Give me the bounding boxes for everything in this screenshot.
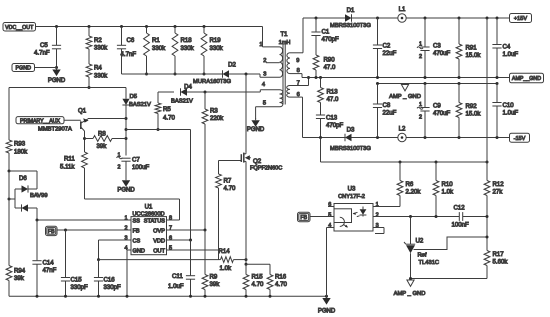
wire pin9 to D1 [303, 17, 345, 19]
svg-text:D6: D6 [19, 175, 27, 182]
net label VDC__OUT [3, 23, 36, 32]
svg-text:C3: C3 [433, 43, 441, 50]
label D5 BAS21V [129, 94, 151, 108]
net label FB (left) [46, 226, 58, 235]
resistor R93 [6, 88, 12, 172]
capacitor C13 [316, 115, 325, 138]
wire GND drop [127, 250, 131, 296]
svg-text:47.0: 47.0 [324, 64, 336, 71]
svg-text:R16: R16 [275, 274, 287, 281]
label R2 330k [94, 37, 108, 52]
inductor L2 [398, 126, 406, 142]
net label +15V [510, 14, 532, 23]
svg-text:3: 3 [124, 235, 127, 241]
svg-text:U1: U1 [145, 203, 153, 210]
capacitor C10 [492, 84, 501, 138]
resistor R94 [6, 266, 12, 297]
svg-text:22uF: 22uF [383, 110, 397, 117]
svg-text:4.7nF: 4.7nF [34, 50, 50, 57]
label R11 5.11k [60, 156, 75, 171]
wire FB to pin 5 [310, 216, 334, 218]
svg-text:D1: D1 [347, 7, 355, 14]
label C9 470uF [417, 102, 451, 121]
svg-text:C12: C12 [454, 205, 466, 212]
label D2 MURA160T3G [193, 79, 232, 85]
svg-text:22uF: 22uF [383, 50, 397, 57]
svg-text:6: 6 [297, 92, 300, 98]
wire -15V rail [406, 137, 509, 139]
pin 6 wire [290, 92, 303, 138]
capacitor C14 [32, 220, 41, 296]
svg-text:PGND: PGND [318, 309, 336, 315]
svg-text:8: 8 [297, 68, 300, 74]
svg-text:330pF: 330pF [104, 284, 122, 291]
svg-text:PGND: PGND [48, 78, 66, 84]
svg-text:5: 5 [263, 101, 266, 107]
svg-text:330k: 330k [181, 45, 195, 52]
label R5 4.70 [163, 106, 175, 122]
resistor R18 [172, 27, 178, 76]
net label AMP__GND [510, 73, 544, 83]
transistor Q1 [64, 108, 89, 132]
wire sense branch [246, 263, 270, 265]
svg-text:2: 2 [118, 164, 121, 170]
svg-text:Q2: Q2 [253, 158, 262, 165]
resistor R7 [216, 161, 222, 251]
svg-text:39k: 39k [97, 143, 108, 150]
svg-text:R8: R8 [98, 130, 106, 137]
svg-text:4.7nF: 4.7nF [121, 51, 137, 58]
wire TL431 anode line [409, 277, 487, 280]
svg-text:R3: R3 [210, 108, 218, 115]
resistor R91 [456, 18, 462, 78]
transistor Q2 FQPF2N60C [241, 153, 282, 172]
wire OVP line [167, 229, 207, 232]
svg-text:Ref: Ref [418, 253, 427, 259]
resistor R90 [313, 55, 319, 78]
svg-text:1.0uF: 1.0uF [503, 110, 519, 117]
wire drain [245, 74, 247, 153]
pin 4 wire [260, 82, 279, 92]
wire Q1 collector [83, 131, 86, 152]
op-amp U1 UCC28600D controller [124, 203, 172, 254]
svg-text:MMBT2907A: MMBT2907A [38, 126, 72, 132]
svg-text:470pF: 470pF [326, 122, 344, 129]
label R13 47.0 [327, 89, 339, 104]
wire pin 6 stub [328, 206, 334, 208]
svg-text:4: 4 [262, 82, 265, 88]
label R92 15.0k [466, 103, 482, 118]
junctions on feedback line [399, 161, 489, 164]
wire clamp line [122, 73, 223, 75]
diode D2 [223, 61, 237, 78]
wire R11 to STATUS [85, 199, 180, 220]
svg-text:39k: 39k [14, 275, 25, 282]
svg-text:C9: C9 [433, 103, 441, 110]
label R9 39k [210, 274, 221, 289]
label C3 470uF [417, 42, 451, 61]
svg-text:4.70: 4.70 [163, 115, 175, 122]
resistor R16 [267, 264, 273, 296]
svg-text:1: 1 [259, 42, 262, 48]
net label FB (right) [298, 212, 311, 221]
svg-text:C11: C11 [172, 273, 183, 280]
svg-text:VDD: VDD [153, 239, 165, 245]
svg-text:470uF: 470uF [433, 50, 451, 57]
resistor R15 [243, 264, 249, 296]
svg-text:R10: R10 [442, 181, 454, 188]
svg-text:STATUS: STATUS [144, 219, 166, 225]
label C8 22uF [383, 102, 397, 117]
junctions on AMP_GND rail [315, 76, 499, 79]
resistor R5 [155, 92, 161, 131]
label R12 27k [493, 181, 505, 196]
pin 1 wire [259, 27, 279, 49]
svg-text:C7: C7 [132, 157, 140, 164]
svg-text:C5: C5 [40, 42, 48, 49]
svg-text:330pF: 330pF [71, 284, 89, 291]
wire OUT corner [218, 250, 220, 260]
resistor R6 [397, 162, 403, 207]
svg-text:SS: SS [133, 219, 141, 225]
wire FB line [57, 229, 131, 232]
label R15 4.70 [252, 274, 264, 289]
junctions on VDC rail [55, 25, 206, 28]
pin 3 number [263, 71, 266, 77]
label R6 2.20k [406, 181, 422, 196]
wire pin6 to D3 [303, 137, 346, 139]
wire AMP_GND rail lower [376, 82, 499, 85]
svg-text:100uF: 100uF [132, 164, 150, 171]
label R18 330k [181, 37, 195, 52]
svg-text:U3: U3 [348, 186, 356, 193]
svg-text:R6: R6 [406, 181, 414, 188]
svg-text:CNY17F-2: CNY17F-2 [338, 194, 365, 200]
wire CS line [99, 240, 132, 260]
label R94 39k [14, 268, 26, 283]
label D4 BAS21V [171, 83, 193, 104]
svg-text:1mH: 1mH [279, 40, 291, 46]
svg-text:AMP _ GND: AMP _ GND [389, 94, 421, 100]
svg-text:4.70: 4.70 [275, 281, 287, 288]
ground AMP_GND symbol [389, 85, 421, 101]
pin 2 stub [263, 58, 279, 64]
svg-text:39k: 39k [210, 281, 221, 288]
svg-text:220k: 220k [210, 115, 224, 122]
svg-text:1.0k: 1.0k [220, 265, 232, 272]
svg-text:C8: C8 [383, 102, 391, 109]
svg-text:330k: 330k [94, 45, 108, 52]
wire primary ground rail [9, 295, 327, 297]
diode D1 [345, 7, 355, 22]
svg-text:R13: R13 [327, 89, 339, 96]
svg-text:R9: R9 [210, 274, 218, 281]
net label PGND [12, 64, 35, 72]
wire D2 to pin3 / drain node [229, 73, 260, 76]
svg-text:5.11k: 5.11k [60, 164, 75, 171]
label C5 4.7nF [34, 42, 50, 57]
svg-text:C4: C4 [503, 44, 511, 51]
label R19 330k [210, 37, 224, 52]
resistor R9 [202, 230, 208, 296]
svg-text:MBRS3100T3G: MBRS3100T3G [330, 23, 371, 29]
svg-text:1.0k: 1.0k [442, 189, 454, 196]
junctions on +15V rail [315, 17, 499, 20]
svg-text:PGND: PGND [117, 188, 135, 194]
svg-text:AMP _ GND: AMP _ GND [394, 291, 426, 297]
label C16 330pF [104, 277, 122, 291]
resistor R13 [318, 78, 324, 115]
svg-text:FB: FB [48, 229, 55, 235]
label R4 330k [94, 65, 108, 80]
capacitor C15 [61, 230, 70, 296]
svg-text:R7: R7 [224, 178, 232, 185]
svg-text:4: 4 [124, 245, 127, 251]
svg-text:UCC28600D: UCC28600D [132, 211, 164, 217]
label Q1 MMBT2907A [38, 126, 72, 132]
svg-text:R2: R2 [94, 37, 102, 44]
ground AMP_GND at TL431 [394, 280, 426, 297]
pin 9 wire [290, 18, 303, 64]
svg-text:2: 2 [263, 58, 266, 64]
svg-text:470pF: 470pF [322, 36, 340, 43]
wire pin 3 stub [260, 74, 280, 77]
svg-text:VDC__OUT: VDC__OUT [5, 25, 34, 31]
resistor R8 [85, 136, 127, 142]
resistor R3 [202, 92, 208, 230]
wire D5 to C7 [125, 105, 128, 156]
ground PGND at pin 5 [247, 107, 265, 133]
wire aux top line [9, 87, 126, 89]
wire pin 3 hook [373, 228, 384, 234]
svg-text:BAS21V: BAS21V [171, 99, 193, 105]
pin 5 wire [256, 101, 280, 107]
svg-text:4.70: 4.70 [252, 281, 264, 288]
label R90 47.0 [324, 57, 336, 72]
svg-text:L1: L1 [399, 6, 406, 13]
svg-text:L2: L2 [399, 126, 406, 133]
label C12 100nF [452, 205, 470, 229]
svg-text:MURA160T3G: MURA160T3G [193, 79, 232, 85]
label C6 4.7nF [121, 37, 137, 58]
svg-text:C15: C15 [71, 277, 83, 284]
inductor L1 [398, 6, 406, 22]
svg-text:R17: R17 [493, 251, 505, 258]
svg-text:Q1: Q1 [78, 108, 87, 115]
svg-text:C14: C14 [43, 260, 55, 267]
svg-text:R4: R4 [94, 65, 102, 72]
svg-text:R93: R93 [14, 141, 26, 148]
label R93 180k [14, 141, 28, 156]
svg-text:TL431C: TL431C [419, 260, 440, 266]
svg-text:D5: D5 [130, 94, 138, 100]
svg-text:1: 1 [124, 215, 127, 221]
wire gate [219, 160, 242, 162]
svg-text:R12: R12 [493, 181, 505, 188]
svg-text:PRIMARY__AUX: PRIMARY__AUX [20, 118, 61, 124]
svg-text:R91: R91 [466, 45, 478, 52]
svg-text:BAV99: BAV99 [30, 193, 48, 199]
resistor R14 [219, 257, 248, 263]
label R91 15.0k [466, 45, 482, 60]
capacitor C6 [117, 27, 126, 75]
svg-text:2: 2 [376, 212, 379, 218]
svg-text:5.60k: 5.60k [493, 259, 509, 266]
capacitor C8 [373, 84, 382, 138]
wire TL431 ref to divider [414, 236, 489, 250]
net label PRIMARY__AUX [16, 117, 64, 125]
wire STATUS stub [167, 219, 180, 221]
svg-text:R1: R1 [152, 37, 160, 44]
svg-text:C16: C16 [104, 277, 116, 284]
svg-text:D2: D2 [228, 61, 236, 68]
diode D6 BAV99 [9, 171, 48, 220]
label R7 4.70 [224, 178, 236, 193]
svg-text:R15: R15 [252, 274, 264, 281]
svg-text:180k: 180k [14, 149, 28, 156]
label D3 MBRS3100T3G [330, 146, 371, 152]
svg-text:C6: C6 [127, 37, 135, 44]
label R1 330k [152, 37, 166, 52]
diode D4 [181, 88, 188, 96]
svg-text:330k: 330k [94, 73, 108, 80]
resistor R19 [201, 27, 207, 76]
svg-text:100nF: 100nF [452, 222, 470, 229]
svg-text:+15V: +15V [514, 16, 527, 22]
label R3 220k [210, 108, 224, 122]
label R16 4.70 [275, 274, 287, 289]
wire +15V sense drop [486, 18, 488, 162]
svg-text:FQPF2N60C: FQPF2N60C [250, 165, 282, 171]
capacitor C2 [373, 18, 382, 78]
wire feedback top line [321, 138, 488, 163]
svg-text:4.70: 4.70 [224, 185, 236, 192]
svg-text:-15V: -15V [514, 136, 526, 142]
wire D1 to L1 [352, 17, 398, 19]
svg-text:2: 2 [124, 225, 127, 231]
capacitor C11 [186, 240, 195, 296]
capacitor C16 [94, 258, 103, 296]
wire PGND to C5 [35, 67, 57, 69]
label C7 100uF [117, 153, 150, 171]
diode D5 [122, 88, 129, 106]
capacitor C4 [492, 18, 501, 78]
svg-text:27k: 27k [493, 189, 504, 196]
svg-text:C13: C13 [326, 115, 338, 122]
svg-text:CS: CS [133, 239, 141, 245]
svg-text:U2: U2 [416, 238, 424, 245]
svg-text:R92: R92 [466, 103, 478, 110]
optocoupler U3 CNY17F-2 [334, 186, 373, 232]
label C13 470pF [326, 115, 344, 130]
svg-text:5: 5 [328, 212, 331, 218]
label C1 470pF [322, 29, 340, 44]
svg-text:1.0uF: 1.0uF [168, 283, 184, 290]
diode D3 [345, 127, 355, 142]
capacitor C3 [420, 18, 429, 78]
svg-text:MBRS3100T3G: MBRS3100T3G [330, 146, 371, 152]
svg-text:R18: R18 [181, 37, 193, 44]
svg-text:OUT: OUT [153, 249, 165, 255]
svg-text:C10: C10 [503, 102, 515, 109]
resistor R11 [82, 152, 88, 199]
svg-text:PGND: PGND [247, 127, 265, 133]
resistor R12 [484, 162, 490, 251]
svg-text:3: 3 [263, 71, 266, 77]
svg-text:R19: R19 [210, 37, 222, 44]
wire CS sense line [99, 259, 219, 261]
label C15 330pF [71, 277, 89, 291]
label R14 1.0k [219, 248, 232, 272]
svg-text:9: 9 [296, 58, 299, 64]
net label -15V [510, 133, 530, 142]
resistor R1 [144, 27, 150, 76]
label R10 1.0k [442, 181, 454, 196]
svg-text:2: 2 [419, 115, 422, 121]
svg-text:PGND: PGND [15, 66, 31, 72]
svg-text:BAS21V: BAS21V [129, 102, 151, 108]
label D1 MBRS3100T3G [330, 23, 371, 29]
label C10 1.0uF [503, 102, 519, 117]
svg-text:T1: T1 [280, 31, 288, 38]
svg-text:D3: D3 [347, 127, 355, 134]
wire Q1 emitter to D5 node [88, 118, 126, 120]
svg-text:7: 7 [297, 81, 300, 87]
label R8 39k [97, 130, 108, 150]
svg-text:C1: C1 [322, 29, 330, 36]
resistor R17 [484, 251, 490, 279]
wire AMP_GND rail upper [302, 77, 510, 79]
pin numbers 6 5 4 [328, 202, 331, 229]
label C11 1.0uF [168, 273, 184, 290]
svg-text:15.0k: 15.0k [466, 111, 482, 118]
wire OUT line [167, 249, 219, 251]
pin numbers 1 2 3 [376, 202, 379, 229]
resistor R2 [86, 27, 92, 65]
svg-text:OVP: OVP [153, 229, 165, 235]
svg-text:2.20k: 2.20k [406, 189, 422, 196]
ground PGND at C7 [117, 178, 135, 193]
capacitor C1 [311, 18, 320, 55]
pin 8 wire [290, 68, 302, 77]
svg-text:R90: R90 [324, 57, 336, 64]
shunt regulator U2 TL431C [404, 217, 439, 279]
svg-text:1.0uF: 1.0uF [503, 51, 519, 58]
wire VDD feed [126, 130, 191, 241]
svg-text:D4: D4 [184, 83, 192, 90]
resistor R92 [456, 84, 462, 138]
label C2 22uF [383, 43, 397, 58]
ground PGND symbol [48, 68, 66, 85]
wire pin 4 to ground [327, 228, 335, 297]
svg-text:R94: R94 [14, 268, 26, 275]
transformer T1 [279, 31, 291, 107]
capacitor C9 [420, 84, 429, 138]
capacitor C12 [459, 212, 488, 221]
label R17 5.60k [493, 251, 509, 266]
svg-text:FB: FB [300, 215, 307, 221]
wire VDC rail [36, 26, 263, 28]
svg-text:FB: FB [133, 229, 140, 235]
label C4 1.0uF [503, 44, 519, 59]
junctions on -15V rail [319, 136, 499, 139]
wire pin 2 line [373, 215, 459, 218]
svg-text:47.0: 47.0 [327, 96, 339, 103]
pin 7 wire [290, 76, 310, 87]
svg-text:15.0k: 15.0k [466, 52, 482, 59]
resistor R10 [433, 162, 439, 217]
ground PGND main [318, 296, 336, 315]
